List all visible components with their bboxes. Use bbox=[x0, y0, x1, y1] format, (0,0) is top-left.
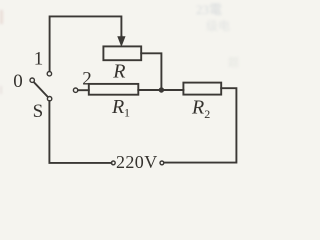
switch pole bbox=[47, 97, 51, 101]
label 1 bbox=[34, 48, 44, 69]
wire: bottom left segment and left rail up to switch pole bbox=[49, 101, 111, 163]
svg-text:220V: 220V bbox=[116, 152, 158, 172]
svg-text:级电: 级电 bbox=[206, 19, 230, 33]
source terminal left bbox=[111, 161, 115, 165]
label R (rheostat) bbox=[112, 61, 125, 83]
rheostat R body bbox=[103, 46, 141, 60]
label R2 bbox=[191, 96, 210, 121]
switch terminal 1 bbox=[47, 72, 51, 76]
wire: R1 to R2 through junction bbox=[138, 89, 183, 91]
wire: terminal 2 to resistor R1 bbox=[78, 89, 89, 91]
switch terminal 0 bbox=[30, 78, 34, 82]
rheostat wiper arrow bbox=[118, 36, 125, 46]
svg-text:1: 1 bbox=[34, 48, 44, 69]
label 220V bbox=[116, 152, 158, 172]
wire: top horizontal from left rail to rheostat arrow bbox=[50, 16, 122, 70]
svg-text:2: 2 bbox=[82, 69, 92, 90]
resistor R1 bbox=[89, 84, 139, 95]
switch terminal 2 bbox=[73, 88, 77, 92]
svg-text:R: R bbox=[111, 96, 124, 118]
wire: R2 right to right rail down to bottom bbox=[164, 88, 236, 162]
svg-text:23電: 23電 bbox=[196, 2, 222, 17]
svg-text:R: R bbox=[112, 61, 125, 83]
junction node bbox=[159, 87, 164, 92]
source terminal right bbox=[160, 161, 164, 165]
wire: rheostat right terminal to junction bbox=[141, 53, 161, 88]
svg-text:题: 题 bbox=[228, 56, 239, 69]
switch blade bbox=[34, 82, 48, 96]
label S bbox=[33, 101, 44, 122]
svg-text:0: 0 bbox=[13, 71, 23, 92]
svg-text:1: 1 bbox=[124, 106, 130, 120]
decorative scan artifacts first (unlabelled) bbox=[0, 2, 239, 94]
label 0 bbox=[13, 71, 23, 92]
label 2 bbox=[82, 69, 92, 90]
label R1 bbox=[111, 96, 130, 120]
svg-text:2: 2 bbox=[204, 107, 210, 121]
svg-text:S: S bbox=[33, 101, 44, 122]
svg-text:R: R bbox=[191, 96, 204, 118]
resistor R2 bbox=[183, 83, 221, 95]
